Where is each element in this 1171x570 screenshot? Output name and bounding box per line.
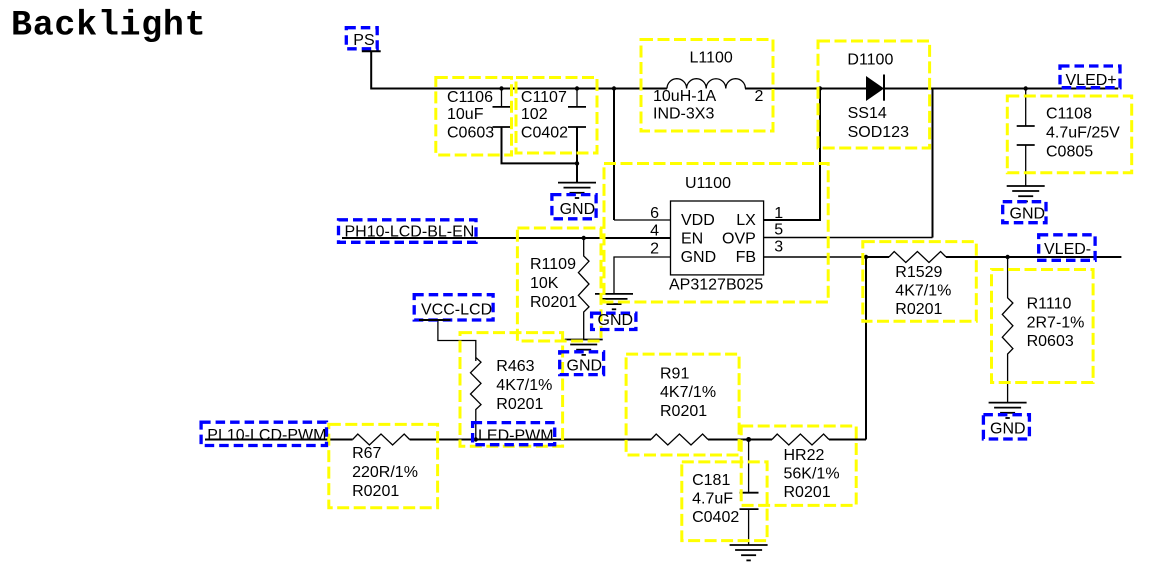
svg-text:AP3127B025: AP3127B025 (669, 277, 763, 294)
svg-text:4K7/1%: 4K7/1% (895, 283, 951, 300)
svg-text:LED-PWM: LED-PWM (478, 428, 554, 445)
svg-text:SOD123: SOD123 (848, 124, 909, 141)
svg-text:220R/1%: 220R/1% (352, 464, 418, 481)
svg-text:C181: C181 (692, 472, 730, 489)
svg-text:R0201: R0201 (530, 294, 577, 311)
svg-text:C0805: C0805 (1046, 144, 1093, 161)
svg-text:C1108: C1108 (1046, 105, 1092, 122)
svg-text:4K7/1%: 4K7/1% (496, 377, 552, 394)
svg-text:R0201: R0201 (352, 483, 399, 500)
svg-text:VDD: VDD (681, 212, 715, 229)
svg-text:R0201: R0201 (660, 403, 707, 420)
svg-text:R0603: R0603 (1027, 333, 1074, 350)
svg-text:R0201: R0201 (496, 396, 543, 413)
svg-text:L1100: L1100 (690, 50, 733, 67)
svg-text:R91: R91 (660, 365, 689, 382)
svg-text:4.7uF/25V: 4.7uF/25V (1046, 124, 1120, 141)
svg-text:2: 2 (755, 88, 764, 105)
svg-text:EN: EN (681, 231, 703, 248)
svg-text:SS14: SS14 (848, 105, 887, 122)
svg-text:R0201: R0201 (784, 484, 831, 501)
svg-text:102: 102 (521, 106, 548, 123)
svg-text:6: 6 (650, 205, 659, 222)
svg-text:1: 1 (774, 205, 783, 222)
svg-text:GND: GND (560, 201, 596, 218)
svg-text:HR22: HR22 (784, 447, 825, 464)
svg-text:C1106: C1106 (447, 89, 493, 106)
svg-text:D1100: D1100 (847, 51, 893, 68)
svg-text:C1107: C1107 (521, 89, 567, 106)
svg-text:OVP: OVP (722, 231, 756, 248)
svg-text:C0402: C0402 (692, 509, 739, 526)
svg-text:56K/1%: 56K/1% (784, 466, 840, 483)
svg-text:PL10-LCD-PWM: PL10-LCD-PWM (207, 427, 326, 444)
svg-text:4: 4 (650, 222, 659, 239)
svg-text:R0201: R0201 (895, 301, 942, 318)
svg-text:C0402: C0402 (521, 125, 568, 142)
svg-text:2R7-1%: 2R7-1% (1027, 315, 1085, 332)
svg-text:R67: R67 (352, 445, 381, 462)
svg-text:FB: FB (736, 249, 756, 266)
svg-text:VLED+: VLED+ (1066, 72, 1117, 89)
svg-text:R1110: R1110 (1027, 296, 1072, 313)
svg-text:10uF: 10uF (447, 106, 484, 123)
svg-text:4.7uF: 4.7uF (692, 491, 733, 508)
svg-text:5: 5 (774, 221, 783, 238)
svg-text:GND: GND (567, 358, 603, 375)
svg-text:GND: GND (598, 312, 634, 329)
svg-text:10uH-1A: 10uH-1A (653, 88, 716, 105)
svg-text:IND-3X3: IND-3X3 (653, 105, 714, 122)
svg-text:4K7/1%: 4K7/1% (660, 384, 716, 401)
svg-text:PH10-LCD-BL-EN: PH10-LCD-BL-EN (345, 223, 475, 240)
svg-text:Backlight: Backlight (11, 6, 206, 46)
svg-text:VCC-LCD: VCC-LCD (421, 302, 492, 319)
svg-text:R463: R463 (496, 358, 534, 375)
svg-text:U1100: U1100 (685, 175, 731, 192)
svg-text:10K: 10K (530, 275, 559, 292)
svg-text:R1529: R1529 (895, 264, 942, 281)
svg-text:VLED-: VLED- (1044, 241, 1091, 258)
svg-text:GND: GND (681, 249, 717, 266)
svg-text:R1109: R1109 (530, 256, 576, 273)
svg-text:PS: PS (353, 32, 374, 49)
svg-text:GND: GND (1010, 205, 1046, 222)
svg-text:2: 2 (650, 241, 659, 258)
svg-text:3: 3 (774, 238, 783, 255)
svg-text:LX: LX (736, 212, 756, 229)
svg-text:C0603: C0603 (447, 125, 494, 142)
svg-text:GND: GND (990, 421, 1026, 438)
